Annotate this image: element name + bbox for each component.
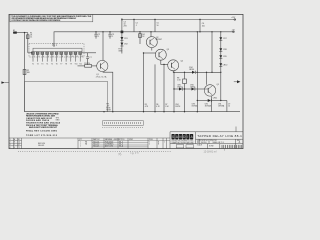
svg-text:3: 3 xyxy=(10,144,11,146)
svg-text:NONE: NONE xyxy=(209,146,214,148)
svg-text:C4: C4 xyxy=(18,142,20,144)
svg-text:C1: C1 xyxy=(30,37,32,39)
svg-text:I: I xyxy=(187,135,188,139)
svg-text:CR9: CR9 xyxy=(223,56,227,58)
svg-text:DL 1: DL 1 xyxy=(52,44,58,47)
svg-text:T10: T10 xyxy=(75,63,78,65)
svg-text:T1: T1 xyxy=(32,63,34,65)
svg-text:AND IS NOT USED IN CIRCUIT: AND IS NOT USED IN CIRCUIT xyxy=(29,126,58,129)
svg-text:9604-017-1: 9604-017-1 xyxy=(213,142,225,144)
svg-text:54310: 54310 xyxy=(201,142,207,144)
svg-text:7: 7 xyxy=(57,56,58,58)
svg-text:9604-001: 9604-001 xyxy=(38,145,45,147)
svg-text:HIGH: HIGH xyxy=(106,110,111,112)
svg-text:R1: R1 xyxy=(18,139,20,141)
svg-text:D: D xyxy=(197,141,199,144)
svg-text:T7: T7 xyxy=(60,63,62,65)
svg-text:E1: E1 xyxy=(13,30,15,32)
svg-text:GND: GND xyxy=(118,51,123,53)
svg-text:9: 9 xyxy=(67,56,68,58)
svg-text:1N758A: 1N758A xyxy=(205,105,212,108)
svg-text:1: 1 xyxy=(10,139,11,141)
svg-text:TAPPED DELAY LINE 88-1: TAPPED DELAY LINE 88-1 xyxy=(197,134,242,138)
svg-text:12-18-81 mf: 12-18-81 mf xyxy=(204,150,217,153)
svg-text:6: 6 xyxy=(53,56,54,58)
svg-text:10: 10 xyxy=(157,25,159,27)
svg-text:T9: T9 xyxy=(70,63,72,65)
svg-text:COPYRIGHT 1981 BY DIGITAL RECO: COPYRIGHT 1981 BY DIGITAL RECORDERS CORP… xyxy=(11,19,60,22)
svg-text:Q2: Q2 xyxy=(18,144,20,146)
svg-text:B: B xyxy=(14,142,15,144)
svg-text:2: 2 xyxy=(10,142,11,144)
svg-text:1N914: 1N914 xyxy=(177,86,182,88)
svg-text:Q3: Q3 xyxy=(167,49,169,51)
svg-text:T2: T2 xyxy=(37,63,39,65)
svg-text:CR10: CR10 xyxy=(223,64,228,66)
svg-text:C7: C7 xyxy=(89,57,91,59)
svg-text:9604-021: 9604-021 xyxy=(93,146,100,148)
svg-text:GND: GND xyxy=(56,119,61,121)
svg-text:.1: .1 xyxy=(136,25,138,27)
svg-text:QTY: QTY xyxy=(79,139,82,141)
svg-text:CR11: CR11 xyxy=(213,97,217,99)
svg-text:T5: T5 xyxy=(51,63,53,65)
svg-text:R3 220: R3 220 xyxy=(84,63,90,65)
svg-text:CR2: CR2 xyxy=(124,43,128,45)
svg-text:.1: .1 xyxy=(112,36,114,38)
svg-text:FINAL REV 12/14/81 DWG: FINAL REV 12/14/81 DWG xyxy=(26,130,57,133)
svg-text:f.g. 1-4: f.g. 1-4 xyxy=(130,150,139,155)
svg-text:11: 11 xyxy=(76,56,78,58)
svg-text:1N758: 1N758 xyxy=(175,106,180,108)
svg-text:.1: .1 xyxy=(98,36,100,38)
svg-text:T1: T1 xyxy=(18,147,20,149)
svg-text:T11: T11 xyxy=(79,63,82,65)
svg-text:B: B xyxy=(158,144,159,146)
svg-text:1N914: 1N914 xyxy=(189,69,194,71)
svg-text:2: 2 xyxy=(34,56,35,58)
svg-text:4: 4 xyxy=(43,56,44,58)
svg-text:REF DWG: REF DWG xyxy=(38,143,46,145)
svg-text:↑6: ↑6 xyxy=(117,152,121,156)
svg-text:CR1: CR1 xyxy=(124,38,128,40)
svg-text:T4: T4 xyxy=(46,63,48,65)
svg-text:10: 10 xyxy=(72,56,74,58)
svg-text:T3: T3 xyxy=(41,63,43,65)
svg-text:CR8: CR8 xyxy=(223,49,227,51)
svg-text:MIL-S: MIL-S xyxy=(119,144,123,146)
svg-text:■: ■ xyxy=(224,150,225,152)
svg-text:T8: T8 xyxy=(65,63,67,65)
svg-text:9604-011: 9604-011 xyxy=(93,141,99,143)
svg-text:12: 12 xyxy=(81,56,83,58)
svg-text:TORR LOT 271/220-212: TORR LOT 271/220-212 xyxy=(26,135,58,137)
svg-text:5: 5 xyxy=(48,56,49,58)
svg-text:3: 3 xyxy=(38,56,39,58)
svg-text:10: 10 xyxy=(228,106,230,108)
svg-text:100: 100 xyxy=(202,25,205,27)
svg-text:T6: T6 xyxy=(56,63,58,65)
svg-text:1N758A: 1N758A xyxy=(192,105,199,108)
svg-text:8: 8 xyxy=(62,56,63,58)
svg-text:4: 4 xyxy=(10,147,11,149)
svg-text:9604-017: 9604-017 xyxy=(93,144,100,146)
svg-text:Q5: Q5 xyxy=(217,84,219,86)
svg-text:2N2222A: 2N2222A xyxy=(96,75,107,78)
svg-text:CR7: CR7 xyxy=(223,38,227,40)
svg-text:Q4: Q4 xyxy=(181,60,183,62)
svg-text:1N758A: 1N758A xyxy=(218,105,225,108)
svg-text:2N2907: 2N2907 xyxy=(156,39,162,41)
svg-text:1N914: 1N914 xyxy=(190,86,195,88)
